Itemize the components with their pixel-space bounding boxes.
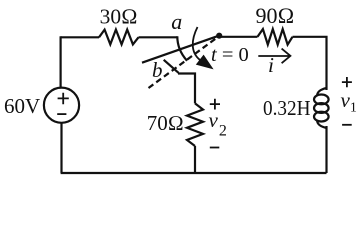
svg-text:60V: 60V [4, 94, 40, 118]
svg-text:a: a [171, 9, 182, 34]
voltage source V 60V circle [44, 88, 79, 123]
v1 plus sign [342, 77, 352, 87]
switch motion arrowhead [196, 55, 214, 70]
resistor R 90ohm zigzag [258, 29, 293, 44]
wire 70ohm bottom lead [194, 146, 196, 173]
source minus sign [57, 113, 66, 115]
source plus sign [57, 49, 352, 148]
wire left vertical lower [60, 123, 62, 173]
v2 minus sign [210, 147, 220, 149]
svg-text:v2: v2 [209, 108, 227, 140]
switch blade solid (position a) [142, 36, 219, 63]
terminal a contact hook [177, 36, 187, 60]
resistor R 30ohm zigzag [99, 30, 139, 45]
resistor R 70ohm zigzag [187, 103, 203, 146]
current arrow i [258, 49, 290, 64]
svg-text:70Ω: 70Ω [147, 111, 184, 135]
svg-text:0.32H: 0.32H [263, 96, 311, 120]
svg-text:90Ω: 90Ω [256, 3, 295, 28]
svg-text:v1: v1 [341, 88, 357, 116]
wire bottom [61, 172, 327, 174]
wire terminal b to 70ohm branch [178, 74, 195, 104]
svg-text:b: b [152, 58, 163, 82]
v2 plus sign [210, 99, 220, 110]
wire inductor bottom lead right vertical [325, 126, 327, 173]
switch pivot dot [216, 33, 222, 39]
svg-text:i: i [268, 53, 274, 77]
v1 minus sign [342, 124, 352, 126]
svg-text:30Ω: 30Ω [100, 5, 138, 29]
wire left vertical upper [59, 36, 61, 88]
switch motion arc t=0 [193, 27, 200, 60]
svg-text:t = 0: t = 0 [211, 44, 249, 66]
terminal b contact stub [164, 60, 179, 73]
wire 30ohm to terminal a corner [139, 36, 178, 38]
wire pivot to 90ohm [219, 36, 257, 38]
wire top-left horizontal [61, 36, 99, 38]
switch blade dashed (position b) [149, 36, 220, 88]
inductor L 0.32H coil loops [317, 88, 326, 96]
wire 90ohm to top-right corner and right vertical [293, 37, 327, 90]
